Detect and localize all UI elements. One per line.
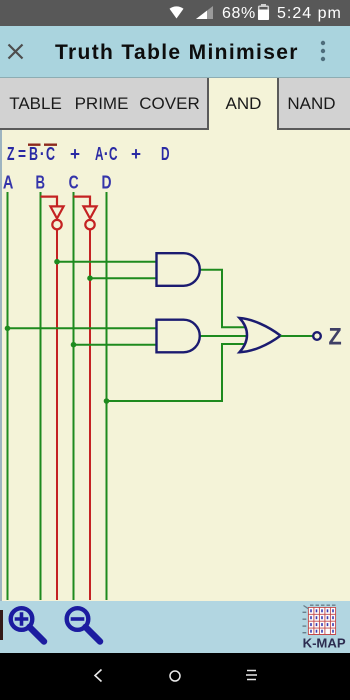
status bar	[0, 0, 350, 26]
junction on Cinv	[87, 275, 93, 281]
wire D to OR input 3	[107, 344, 247, 401]
junction on D	[104, 398, 110, 404]
signal icon	[196, 6, 213, 19]
zoom-out icon	[62, 604, 106, 648]
svg-text:D: D	[102, 173, 112, 193]
overbar on C	[44, 144, 57, 146]
wire input C vertical	[73, 192, 75, 600]
svg-text:Z: Z	[329, 324, 342, 351]
input labels A B C D	[3, 173, 112, 193]
inverter on B: bubble	[52, 220, 61, 229]
battery percent text	[222, 0, 262, 26]
tab block NAND	[277, 78, 350, 130]
K-MAP button	[300, 604, 350, 650]
tab bar	[0, 78, 350, 130]
junction on A	[5, 326, 11, 332]
OR gate	[240, 318, 281, 352]
AND gate 1	[157, 253, 200, 286]
nav back	[92, 668, 104, 683]
nav home	[168, 669, 182, 683]
scrollbar thumb bottom-left	[0, 610, 3, 640]
AND gate 2	[157, 320, 200, 353]
svg-text:Z: Z	[7, 144, 15, 164]
close X icon	[7, 43, 24, 60]
wire A to AND2 input 1	[8, 327, 158, 329]
overflow menu dots	[318, 39, 328, 65]
inverter on C: bubble	[85, 220, 94, 229]
svg-text:+: +	[70, 144, 80, 164]
svg-text:A: A	[95, 144, 104, 164]
wire input D vertical	[106, 192, 108, 600]
nav menu	[245, 669, 258, 681]
inverter on C: tap wire	[74, 197, 91, 206]
svg-text:·: ·	[40, 144, 45, 164]
wire C to AND2 input 2	[74, 344, 158, 346]
wire Cinv vertical	[89, 230, 91, 600]
zoom-in icon	[6, 604, 50, 648]
title text	[55, 26, 335, 78]
output node Z	[313, 332, 321, 340]
equation Z = B'.C' + A.C + D	[7, 144, 170, 164]
tab block left (TABLE PRIME COVER)	[0, 78, 209, 130]
bottom toolbar	[0, 601, 350, 653]
app header bar	[0, 26, 350, 78]
canvas left border	[0, 130, 2, 601]
wifi icon	[169, 5, 184, 19]
svg-text:A: A	[3, 173, 14, 193]
svg-text:K-MAP: K-MAP	[303, 636, 346, 651]
svg-text:+: +	[131, 144, 141, 164]
overbar on B	[28, 144, 41, 146]
svg-text:D: D	[161, 144, 170, 164]
battery icon	[257, 4, 270, 20]
inverter on B: tap wire	[41, 197, 58, 206]
svg-text:B: B	[36, 173, 46, 193]
junction on Binv	[54, 259, 60, 265]
wire OR output	[281, 335, 313, 337]
wire Cinv to AND1 input 2	[90, 277, 157, 279]
svg-text:C: C	[69, 173, 79, 193]
wire Binv to AND1 input 1	[57, 261, 157, 263]
inverter on B: triangle	[50, 206, 63, 218]
tab labels	[0, 78, 350, 128]
inverter on C: triangle	[83, 206, 96, 218]
wire AND1 output to OR input 1	[200, 270, 246, 327]
svg-text:C: C	[109, 144, 118, 164]
svg-text:=: =	[18, 144, 26, 164]
wire Binv vertical	[56, 230, 58, 600]
svg-text:B: B	[29, 144, 38, 164]
schematic canvas	[0, 130, 350, 601]
wire AND2 output to OR input 2	[200, 335, 248, 337]
wire input B vertical	[40, 192, 42, 600]
clock text	[277, 0, 350, 26]
svg-text:C: C	[46, 144, 55, 164]
wire input A vertical	[7, 192, 9, 600]
junction on C	[71, 342, 77, 348]
nav bar	[0, 653, 350, 700]
tab AND selected	[209, 78, 277, 130]
